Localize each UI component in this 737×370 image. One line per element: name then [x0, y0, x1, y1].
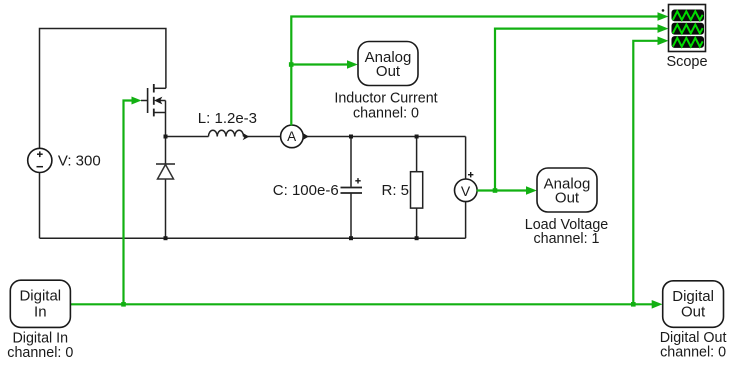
- svg-text:Out: Out: [681, 304, 706, 321]
- svg-text:Out: Out: [555, 189, 580, 206]
- svg-text:R: 5: R: 5: [382, 182, 410, 199]
- svg-text:A: A: [287, 129, 296, 144]
- svg-text:Out: Out: [376, 63, 401, 80]
- svg-text:channel: 0: channel: 0: [7, 345, 73, 361]
- svg-text:Inductor Current: Inductor Current: [334, 90, 437, 106]
- svg-text:V: V: [461, 183, 471, 199]
- svg-text:In: In: [34, 303, 47, 320]
- svg-text:channel: 1: channel: 1: [534, 231, 600, 247]
- svg-text:channel: 0: channel: 0: [353, 105, 419, 121]
- svg-text:Scope: Scope: [666, 54, 707, 70]
- svg-text:L: 1.2e-3: L: 1.2e-3: [198, 110, 257, 127]
- svg-text:C: 100e-6: C: 100e-6: [273, 182, 339, 199]
- svg-text:Digital Out: Digital Out: [660, 330, 727, 346]
- svg-text:Digital: Digital: [672, 288, 714, 305]
- svg-text:Digital: Digital: [19, 288, 61, 305]
- svg-text:channel: 0: channel: 0: [660, 345, 726, 361]
- svg-text:V: 300: V: 300: [58, 152, 101, 169]
